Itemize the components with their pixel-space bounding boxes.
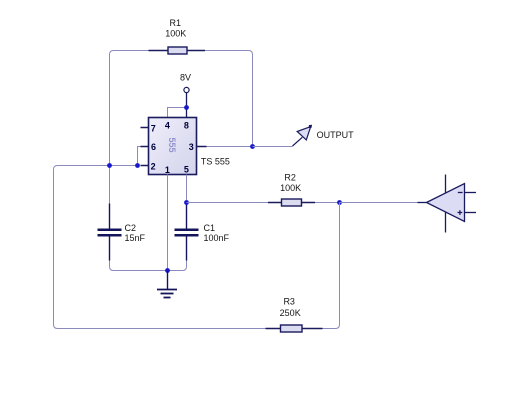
svg-text:OUTPUT: OUTPUT (317, 130, 355, 140)
svg-text:250K: 250K (280, 308, 301, 318)
IC U1 TS555 body (149, 118, 230, 175)
pin 2 stub (141, 165, 149, 167)
wire comparator node down to R3 right (323, 203, 340, 329)
wire 8V branch to pin 4 (168, 108, 187, 118)
junction dot pin3/output node (250, 144, 255, 149)
svg-text:4: 4 (165, 121, 170, 131)
pin 6 stub (141, 146, 149, 148)
wire R2 right to comparator node (315, 202, 340, 204)
op-amp U2 (418, 175, 477, 233)
svg-text:TS 555: TS 555 (201, 156, 230, 166)
svg-text:8V: 8V (180, 72, 191, 82)
pin 7 stub (141, 127, 149, 129)
svg-text:100nF: 100nF (204, 233, 230, 243)
wire output node to output arrow (253, 146, 293, 148)
wire pin5 node to R2 left (187, 202, 269, 204)
wire left rail pin2 node down to C2 top (109, 166, 111, 204)
junction dot pin2/left rail node (107, 163, 112, 168)
pin 3 stub (197, 146, 207, 148)
wire pin 6 loop to pin 2 node (138, 147, 141, 166)
junction dot ground node (165, 268, 170, 273)
wire C1 bottom corner to ground node (168, 261, 187, 271)
wire comparator node to op-amp output (340, 202, 418, 204)
wire pin 1 down to ground node (167, 175, 169, 271)
output port arrow (293, 125, 313, 146)
svg-text:1: 1 (165, 165, 170, 175)
svg-text:8: 8 (184, 121, 189, 131)
svg-text:5: 5 (184, 165, 189, 175)
wire R1 left to left rail corner down to pin2 row (110, 51, 149, 166)
capacitor C2 (98, 204, 146, 261)
svg-text:C1: C1 (204, 223, 216, 233)
svg-text:7: 7 (151, 124, 156, 134)
svg-text:R1: R1 (170, 18, 182, 28)
junction dot pin2/pin6 node (135, 163, 140, 168)
junction dot pin5/R2 node (184, 200, 189, 205)
svg-text:100K: 100K (280, 183, 301, 193)
voltage source 8V terminal (180, 72, 191, 117)
resistor R1 (149, 18, 206, 54)
svg-text:R3: R3 (283, 296, 295, 306)
capacitor C1 (175, 203, 230, 261)
wire pin 2 row left rail down and along bottom to R3 (54, 166, 266, 329)
wire C2 bottom to ground node (110, 261, 168, 271)
svg-text:2: 2 (151, 161, 156, 171)
svg-text:R2: R2 (284, 172, 296, 182)
svg-text:555: 555 (167, 137, 177, 152)
resistor R3 (266, 296, 323, 332)
wire R1 right to right rail down to pin3 node (205, 51, 253, 147)
junction dot R2/comparator/R3 node (337, 200, 342, 205)
junction dot 8V node (184, 105, 189, 110)
svg-text:6: 6 (151, 142, 156, 152)
resistor R2 (268, 172, 315, 206)
svg-text:100K: 100K (165, 29, 186, 39)
svg-text:C2: C2 (125, 223, 137, 233)
wire pin 5 down to C1 (186, 175, 188, 203)
ground symbol (157, 271, 177, 298)
svg-text:3: 3 (189, 142, 194, 152)
svg-text:15nF: 15nF (125, 233, 146, 243)
wire pin3 stub to output node (207, 146, 253, 148)
